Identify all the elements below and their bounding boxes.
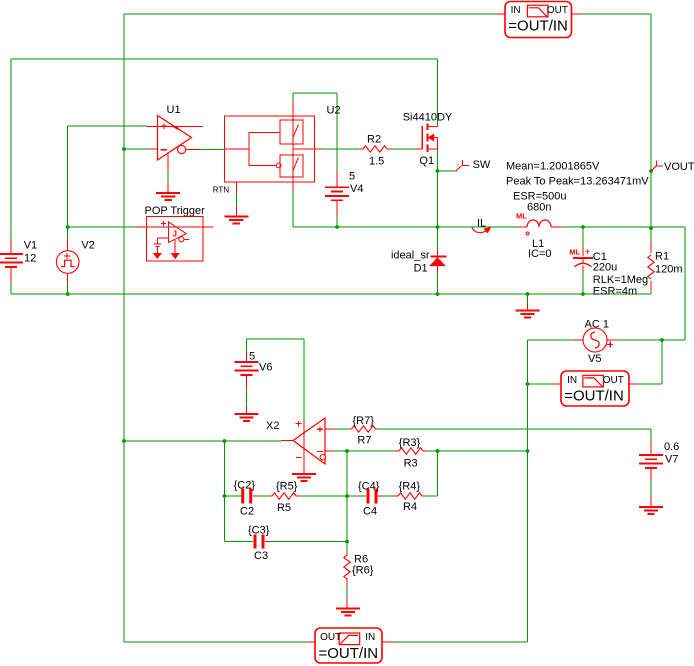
svg-text:12: 12 — [24, 253, 36, 265]
source V2 pulse — [56, 239, 94, 294]
svg-text:OUT: OUT — [547, 5, 568, 16]
wire X2 out y=441 — [124, 440, 293, 443]
op-amp X2 — [266, 418, 325, 474]
svg-text:OUT: OUT — [320, 632, 341, 643]
svg-text:=OUT/IN: =OUT/IN — [508, 17, 568, 34]
svg-text:{C3}: {C3} — [248, 525, 270, 537]
ground of U1 — [156, 153, 180, 200]
wire D1 column — [437, 227, 439, 294]
source V7 0.6V battery — [639, 441, 679, 507]
wire VOUT vertical x=651 — [650, 14, 652, 228]
svg-text:{R6}: {R6} — [352, 565, 374, 577]
wire V4 bottom — [336, 216, 338, 227]
probe IL arrow — [472, 218, 490, 233]
wire C2 column x=224.5 — [224, 441, 226, 542]
annotation mean/peak — [506, 161, 649, 188]
ground of R6 — [336, 609, 360, 616]
svg-text:R3: R3 — [404, 458, 418, 470]
resistor R1 120m — [648, 251, 683, 280]
transistor Q1 Si4410DY — [403, 112, 453, 168]
wire main left vertical x=124 — [123, 14, 125, 642]
wire C3 line y=541.5 — [225, 541, 348, 543]
source V6 5V battery — [235, 351, 273, 375]
wire V1 left vertical — [10, 59, 12, 239]
svg-text:SW: SW — [473, 159, 491, 171]
svg-text:IC=0: IC=0 — [528, 248, 552, 260]
wire V7 top — [650, 429, 652, 455]
source V1 12V battery — [0, 239, 37, 294]
wire X2 -in / R3 line y=451 — [325, 450, 528, 452]
wire bottom right — [382, 641, 528, 643]
svg-text:ML: ML — [569, 248, 580, 257]
capacitor C2 — [234, 480, 256, 518]
wire ground tap x=527.5 — [527, 294, 529, 311]
wire R4 up leg x=437.5 — [437, 451, 439, 496]
wire bottom net y=642 — [124, 641, 315, 643]
wire U1 -in — [124, 148, 158, 150]
op-amp U1 comparator — [147, 104, 225, 160]
wire Q1 drain vertical x=437.5 — [437, 59, 439, 127]
svg-text:Si4410DY: Si4410DY — [403, 112, 453, 124]
svg-text:POP Trigger: POP Trigger — [145, 205, 206, 217]
svg-text:{R5}: {R5} — [276, 481, 298, 493]
svg-text:=OUT/IN: =OUT/IN — [319, 645, 379, 662]
svg-text:V2: V2 — [81, 240, 94, 252]
svg-text:Mean=1.2001865V: Mean=1.2001865V — [506, 161, 600, 173]
wire C2-R5 line y=496 — [225, 495, 348, 497]
ground of V7 — [639, 507, 663, 514]
svg-text:R4: R4 — [403, 501, 417, 513]
capacitor C3 — [248, 525, 270, 563]
svg-text:X2: X2 — [266, 420, 279, 432]
svg-text:V4: V4 — [350, 183, 363, 195]
svg-text:J: J — [173, 230, 177, 239]
svg-text:{R4}: {R4} — [399, 481, 421, 493]
svg-text:0.6: 0.6 — [664, 441, 679, 453]
svg-text:680n: 680n — [527, 202, 551, 214]
wire U2 out to R2 to Q1 gate — [315, 148, 417, 150]
source V5 AC 1 — [583, 319, 613, 366]
wire V6 top link — [247, 339, 305, 420]
POP Trigger — [145, 205, 206, 261]
svg-text:ESR=4m: ESR=4m — [593, 286, 637, 298]
svg-text:R1: R1 — [655, 251, 669, 263]
wire SW vertical — [437, 149, 439, 250]
svg-text:RTN: RTN — [213, 186, 230, 195]
svg-text:5: 5 — [349, 171, 355, 183]
svg-text:1.5: 1.5 — [369, 156, 384, 168]
svg-text:{R3}: {R3} — [399, 437, 421, 449]
wire POP trigger line y=227 — [68, 226, 214, 228]
svg-text:R2: R2 — [367, 134, 381, 146]
svg-text:U1: U1 — [167, 104, 181, 116]
probe block middle =OUT/IN — [561, 371, 629, 406]
resistor R7 — [352, 415, 376, 447]
svg-text:IN: IN — [511, 5, 521, 16]
diode D1 ideal_sr — [391, 250, 447, 275]
node VOUT probe — [652, 160, 694, 173]
ground of X2 — [292, 474, 316, 481]
wire V5 right net — [607, 339, 685, 341]
wire ground rail y=294 — [11, 293, 651, 295]
capacitor C1 220u — [569, 247, 648, 298]
wire X2 +in / R7 line y=429 — [325, 428, 651, 430]
capacitor C4 — [358, 481, 380, 518]
svg-text:R5: R5 — [277, 502, 291, 514]
svg-text:OUT: OUT — [603, 375, 624, 386]
wire V2 to U1 +in — [68, 126, 147, 239]
probe block top =OUT/IN — [496, 2, 582, 38]
svg-text:IN: IN — [567, 375, 577, 386]
svg-text:AC 1: AC 1 — [585, 319, 609, 331]
wire probe2 in — [528, 383, 562, 385]
ground of output rail — [516, 311, 540, 318]
ground of V6 — [235, 414, 259, 421]
wire R6 column x=347 — [346, 451, 348, 609]
resistor R6 — [344, 554, 374, 580]
wire V1 top rail y=59 — [11, 58, 438, 60]
svg-text:RLK=1Meg: RLK=1Meg — [593, 274, 648, 286]
svg-text:R7: R7 — [357, 435, 371, 447]
svg-text:C2: C2 — [240, 506, 254, 518]
wire SW tap — [438, 170, 457, 172]
wire right vertical x=685 — [684, 227, 686, 340]
wire U2 top link to V4 — [293, 93, 337, 172]
svg-text:C3: C3 — [254, 550, 268, 562]
probe block bottom =OUT/IN — [315, 628, 382, 663]
resistor R3 — [399, 437, 423, 470]
wire probe2 out — [629, 340, 662, 384]
svg-text:220u: 220u — [593, 262, 617, 274]
svg-text:V1: V1 — [24, 240, 37, 252]
inductor L1 680n — [513, 191, 567, 261]
svg-text:D1: D1 — [414, 263, 428, 275]
wire R1 column — [650, 228, 652, 294]
wire switch rail y=227 — [293, 226, 685, 228]
wire C1 column — [582, 227, 584, 294]
wire C4-R4 line y=496 — [347, 495, 438, 497]
svg-text:IL: IL — [477, 218, 486, 230]
svg-text:Peak To Peak=13.263471mV: Peak To Peak=13.263471mV — [506, 176, 649, 188]
svg-text:+: + — [585, 247, 591, 258]
svg-text:=OUT/IN: =OUT/IN — [564, 387, 624, 404]
wire V6 column — [246, 339, 248, 414]
wire U2 bottom leg — [292, 182, 294, 227]
resistor R4 — [398, 481, 422, 514]
svg-text:IN: IN — [365, 632, 375, 643]
svg-text:C4: C4 — [363, 506, 377, 518]
svg-text:5: 5 — [249, 351, 255, 363]
svg-text:{R7}: {R7} — [353, 415, 375, 427]
svg-text:V5: V5 — [588, 353, 601, 365]
svg-text:V6: V6 — [259, 362, 272, 374]
ground RTN of U2 — [213, 182, 249, 224]
node SW probe — [456, 159, 491, 171]
resistor R5 — [272, 481, 298, 515]
svg-text:Q1: Q1 — [419, 155, 434, 167]
svg-text:ideal_sr: ideal_sr — [391, 250, 430, 262]
source V4 5V battery — [325, 171, 363, 217]
wire loop vertical x=527.5 — [527, 340, 529, 642]
svg-text:VOUT: VOUT — [664, 161, 694, 173]
svg-text:ML: ML — [516, 212, 527, 221]
svg-text:V7: V7 — [665, 454, 678, 466]
svg-text:120m: 120m — [655, 264, 683, 276]
wire top feedback net (y=14) — [124, 13, 651, 15]
switch block U2 — [225, 105, 341, 183]
svg-text:{C2}: {C2} — [234, 480, 256, 492]
svg-text:U2: U2 — [327, 105, 341, 117]
svg-text:{C4}: {C4} — [358, 481, 380, 493]
wire V5 left net — [528, 339, 584, 341]
resistor R2 1.5 — [363, 134, 387, 168]
